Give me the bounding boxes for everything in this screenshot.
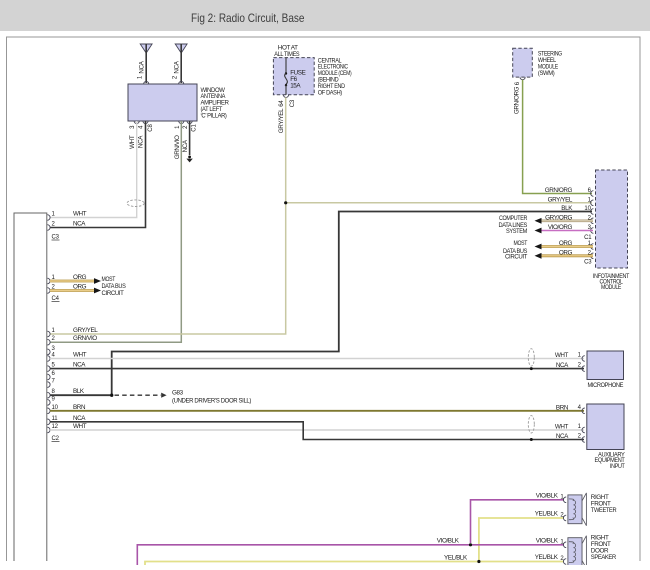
tweeter pin 1 VIO/BLK xyxy=(536,492,566,502)
svg-text:GRY/YEL: GRY/YEL xyxy=(73,327,98,334)
svg-text:9: 9 xyxy=(52,396,56,402)
svg-text:6: 6 xyxy=(52,371,56,377)
tweeter pin 2 YEL/BLK xyxy=(535,511,566,521)
svg-text:(UNDER DRIVER’S DOOR SILL): (UNDER DRIVER’S DOOR SILL) xyxy=(172,398,251,405)
svg-text:C1: C1 xyxy=(191,124,197,132)
right front door speaker xyxy=(568,535,617,569)
radio C2 pin 8 BLK xyxy=(47,388,85,398)
wire YEL/BLK to tweeter pin 2 xyxy=(479,518,564,560)
svg-text:GRY/YEL: GRY/YEL xyxy=(278,108,285,133)
radio connector C4 xyxy=(52,296,60,302)
wire NCA radio C2-5 to microphone pin 2 xyxy=(50,368,584,370)
svg-text:‘C’ PILLAR): ‘C’ PILLAR) xyxy=(201,112,227,119)
radio C2 pin 4 WHT xyxy=(47,352,86,362)
shield ellipse on antenna coax xyxy=(127,200,144,207)
auxiliary equipment input xyxy=(587,404,626,470)
svg-text:1: 1 xyxy=(175,125,181,129)
svg-text:YEL/BLK: YEL/BLK xyxy=(444,554,468,561)
wire VIO/BLK to tweeter pin 1 xyxy=(471,500,565,543)
svg-text:3: 3 xyxy=(52,346,56,352)
svg-text:WHT: WHT xyxy=(73,423,87,430)
radio C3 pin 2 NCA xyxy=(47,221,86,231)
svg-text:4: 4 xyxy=(52,353,56,359)
microphone pin 2 NCA xyxy=(556,362,585,371)
svg-text:7: 7 xyxy=(52,379,56,385)
svg-text:11: 11 xyxy=(52,416,59,422)
aux pin 2 NCA xyxy=(556,433,585,442)
svg-text:4: 4 xyxy=(139,125,145,129)
svg-text:CIRCUIT: CIRCUIT xyxy=(102,290,125,297)
svg-text:C8: C8 xyxy=(148,124,154,132)
svg-text:1: 1 xyxy=(578,424,582,430)
wire GRY/YEL branch to infotainment pin 1 xyxy=(284,201,592,204)
svg-text:12: 12 xyxy=(52,424,59,430)
svg-text:BLK: BLK xyxy=(73,388,85,395)
fuse F6 15A xyxy=(285,58,306,95)
ICM pin 6 GRN/ORG xyxy=(545,187,594,196)
svg-text:DATA BUS: DATA BUS xyxy=(102,283,126,290)
svg-text:NCA: NCA xyxy=(73,415,86,422)
fuse pin 64 / C3 xyxy=(278,99,296,133)
svg-text:WHT: WHT xyxy=(129,135,136,149)
ICM pin 2 ORG (MOST) xyxy=(535,249,594,258)
svg-text:1: 1 xyxy=(578,353,582,359)
svg-text:C4: C4 xyxy=(52,296,60,302)
svg-text:C3: C3 xyxy=(52,235,60,241)
door speaker pin 1 VIO/BLK xyxy=(536,537,566,547)
svg-text:2: 2 xyxy=(173,75,179,79)
svg-text:NCA: NCA xyxy=(182,139,189,152)
svg-text:WHT: WHT xyxy=(555,424,569,431)
amplifier pin 2 NCA xyxy=(182,124,197,153)
svg-text:C2: C2 xyxy=(52,436,60,442)
radio C2 pin 9 xyxy=(47,396,55,405)
svg-text:2: 2 xyxy=(578,363,582,369)
ICM pin 10 BLK xyxy=(561,205,593,214)
svg-text:VIO/BLK: VIO/BLK xyxy=(536,492,559,499)
svg-text:2: 2 xyxy=(52,222,56,228)
svg-text:NCA: NCA xyxy=(139,60,146,73)
svg-text:TWEETER: TWEETER xyxy=(591,507,617,514)
wire GRN/ORG from SWM to infotainment pin 6 xyxy=(523,80,592,194)
svg-text:NCA: NCA xyxy=(138,135,145,148)
shield ellipse on aux pair xyxy=(528,416,534,441)
svg-text:MOST: MOST xyxy=(514,240,528,247)
wire NCA from amplifier pin 4 to radio C3-2 xyxy=(50,121,146,228)
radio C2 pin 6 xyxy=(47,371,55,380)
svg-text:C3: C3 xyxy=(584,260,592,266)
title bar xyxy=(0,0,650,31)
right front tweeter xyxy=(568,493,617,526)
microphone pin 1 WHT xyxy=(555,352,585,361)
svg-text:WHT: WHT xyxy=(555,352,569,359)
window antenna amplifier xyxy=(128,81,229,123)
dashed BLK wire to ground G83 xyxy=(115,393,167,398)
radio C2 pin 2 GRN/VIO xyxy=(47,335,97,345)
ICM pin 1 ORG (MOST) xyxy=(535,240,594,249)
radio unit box xyxy=(14,213,47,561)
svg-text:1: 1 xyxy=(138,75,144,79)
SWM pin 6 xyxy=(513,81,521,114)
svg-text:VIO/BLK: VIO/BLK xyxy=(536,537,559,544)
svg-text:SPEAKER: SPEAKER xyxy=(591,554,617,561)
svg-text:Fig 2: Radio Circuit, Base: Fig 2: Radio Circuit, Base xyxy=(191,11,305,25)
ICM connector C1 xyxy=(584,235,592,241)
amplifier pin 3 WHT xyxy=(129,125,136,149)
svg-text:64: 64 xyxy=(279,100,285,107)
svg-text:GRN/VIO: GRN/VIO xyxy=(73,335,97,342)
svg-text:NCA: NCA xyxy=(556,362,569,369)
wire NCA from amplifier pin 2 to termination xyxy=(186,121,192,162)
aux pin 1 WHT xyxy=(555,424,585,433)
radio C2 pin 7 xyxy=(47,379,55,388)
microphone xyxy=(587,351,624,389)
computer data lines system label xyxy=(499,215,528,235)
svg-text:MODULE: MODULE xyxy=(601,284,621,291)
antenna 1 xyxy=(138,44,153,83)
svg-text:2: 2 xyxy=(183,125,189,129)
radio C2 pin 1 GRY/YEL xyxy=(47,327,98,337)
svg-text:2: 2 xyxy=(52,336,56,342)
svg-text:NCA: NCA xyxy=(556,433,569,440)
radio C2 pin 11 NCA xyxy=(47,415,86,425)
wire BLK from ICM pin 10 to ground junction xyxy=(112,212,592,395)
svg-text:WHT: WHT xyxy=(73,352,87,359)
ICM connector C3 xyxy=(584,260,592,266)
svg-text:(SWM): (SWM) xyxy=(538,70,555,77)
svg-text:MOST: MOST xyxy=(102,276,116,283)
radio C2 pin 5 NCA xyxy=(47,362,86,372)
wire WHT radio C2-12 to aux pin 1 xyxy=(50,429,584,431)
svg-text:MICROPHONE: MICROPHONE xyxy=(588,382,624,389)
svg-text:CIRCUIT: CIRCUIT xyxy=(505,253,528,260)
svg-text:GRN/ORG: GRN/ORG xyxy=(545,187,573,194)
svg-text:1: 1 xyxy=(52,212,56,218)
svg-text:BRN: BRN xyxy=(73,404,86,411)
infotainment control module xyxy=(593,170,629,291)
svg-text:2: 2 xyxy=(578,434,582,440)
ICM pin 2 GRY/ORG with arrow to computer data lines xyxy=(535,214,594,223)
svg-text:NCA: NCA xyxy=(73,362,86,369)
central electronic module (CEM) box xyxy=(273,57,351,97)
svg-text:NCA: NCA xyxy=(174,60,181,73)
wire GRY/YEL from fuse to radio C2-1 xyxy=(50,97,286,334)
wire NCA radio C2-11 to aux pin 2 xyxy=(50,422,584,440)
MOST data bus circuit label (right) xyxy=(503,240,528,260)
svg-text:BRN: BRN xyxy=(556,404,569,411)
wire BLK radio C2-8 to junction xyxy=(50,394,113,397)
svg-text:YEL/BLK: YEL/BLK xyxy=(535,554,559,561)
svg-text:3: 3 xyxy=(130,125,136,129)
svg-text:GRN/ORG: GRN/ORG xyxy=(513,86,520,114)
svg-text:5: 5 xyxy=(52,363,56,369)
radio C4 pin 2 ORG xyxy=(47,284,101,294)
svg-text:INPUT: INPUT xyxy=(610,463,625,470)
svg-text:GRN/VIO: GRN/VIO xyxy=(174,135,181,159)
shield ellipse on microphone pair xyxy=(528,349,534,370)
radio connector C2 xyxy=(52,436,60,442)
ground G83 label xyxy=(172,389,251,404)
ICM pin 1 GRY/YEL xyxy=(548,196,594,205)
wire WHT radio C2-4 to microphone pin 1 xyxy=(50,358,584,360)
wire VIO/BLK main run from radio xyxy=(137,543,564,565)
svg-text:SYSTEM: SYSTEM xyxy=(506,228,527,235)
svg-text:1: 1 xyxy=(52,328,56,334)
wire WHT from amplifier pin 3 to radio C3-1 xyxy=(50,121,137,218)
svg-text:WHT: WHT xyxy=(73,211,87,218)
hot at all times label xyxy=(274,44,299,58)
radio C4 pin 1 ORG xyxy=(47,274,101,284)
radio C2 pin 12 WHT xyxy=(47,423,86,433)
door speaker pin 2 YEL/BLK xyxy=(535,554,566,564)
svg-text:C1: C1 xyxy=(584,235,592,241)
amplifier pin 4 NCA xyxy=(138,124,154,149)
wire BRN radio C2-10 to aux pin 4 xyxy=(50,410,584,412)
svg-text:NCA: NCA xyxy=(73,221,86,228)
svg-text:6: 6 xyxy=(515,81,521,85)
VIO/BLK label on main run xyxy=(437,538,460,545)
YEL/BLK label on main run xyxy=(444,554,468,561)
svg-text:15A: 15A xyxy=(290,83,301,90)
svg-text:G83: G83 xyxy=(172,389,184,396)
ICM pin 3 VIO/ORG with arrow xyxy=(535,224,594,233)
svg-text:YEL/BLK: YEL/BLK xyxy=(535,511,559,518)
svg-text:ALL TIMES: ALL TIMES xyxy=(274,51,299,58)
radio C2 pin 3 xyxy=(47,346,55,355)
MOST data bus circuit label (left) xyxy=(102,276,126,297)
svg-text:OF DASH): OF DASH) xyxy=(318,89,342,96)
svg-text:GRY/YEL: GRY/YEL xyxy=(548,196,573,203)
svg-text:VIO/BLK: VIO/BLK xyxy=(437,538,460,545)
svg-text:C3: C3 xyxy=(290,99,296,107)
wire YEL/BLK main run from radio xyxy=(145,560,564,565)
steering wheel module (SWM) xyxy=(513,48,563,79)
aux pin 4 BRN xyxy=(556,404,585,413)
amplifier pin 1 GRN/VIO xyxy=(174,125,181,159)
radio C2 pin 10 BRN xyxy=(47,404,86,414)
wire GRN/VIO from amplifier pin 1 to radio C2-2 xyxy=(50,121,181,342)
radio C3 pin 1 WHT xyxy=(47,211,86,221)
radio connector C3 xyxy=(52,235,60,241)
antenna 2 xyxy=(173,44,188,83)
